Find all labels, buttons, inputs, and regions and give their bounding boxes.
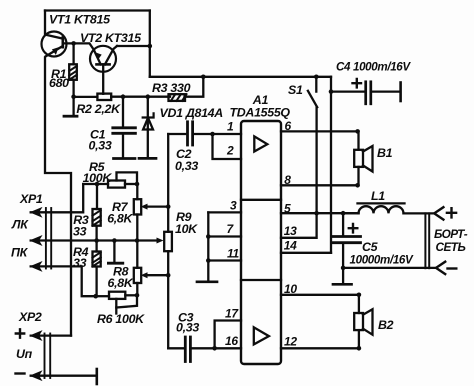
node junction R3 riser on rail2 <box>201 75 206 80</box>
svg-text:СЕТЬ: СЕТЬ <box>436 240 466 254</box>
svg-text:33: 33 <box>73 256 87 270</box>
variable resistor R9 <box>137 232 172 251</box>
svg-text:0,33: 0,33 <box>175 159 198 173</box>
resistor R2 <box>74 94 170 100</box>
terminal arrow minus board net <box>436 262 445 274</box>
wire rail2 horizontal <box>150 76 331 78</box>
wire VT1 collector vertical <box>44 11 46 35</box>
transistor VT2 <box>90 46 117 72</box>
node junction pin8/B1 <box>355 183 360 188</box>
node junction pin12/B2 <box>357 346 362 351</box>
capacitor C2 <box>168 122 212 145</box>
variable resistor R7 <box>134 184 141 241</box>
svg-text:0,33: 0,33 <box>89 138 112 152</box>
wire top rail from VT1 collector to drop <box>45 9 150 11</box>
wire ground bus pins 3-7-11 <box>207 212 209 280</box>
wire R3-33 top lead <box>96 184 98 209</box>
inductor L1 <box>343 203 434 213</box>
node junction R4/R6 left <box>93 294 98 299</box>
svg-text:VD1 Д814А: VD1 Д814А <box>160 106 224 120</box>
svg-text:S1: S1 <box>288 83 303 97</box>
capacitor C3 <box>168 337 214 362</box>
node junction R3/R4/PK <box>94 238 99 243</box>
wire pin 10 <box>281 294 359 296</box>
svg-text:3: 3 <box>230 198 237 212</box>
svg-text:12: 12 <box>284 335 297 349</box>
wire pin 2 <box>213 134 242 159</box>
node junction C1 top <box>121 94 126 99</box>
svg-text:13: 13 <box>284 224 297 238</box>
capacitor C4 <box>331 82 400 104</box>
capacitor C1 <box>113 97 136 157</box>
plus sign C4 <box>353 79 362 87</box>
terminal arrow XP1 pin3 <box>31 262 42 271</box>
svg-text:XP1: XP1 <box>19 192 43 206</box>
svg-text:VT1 KT815: VT1 KT815 <box>49 13 111 27</box>
node junction R7 wiper tap <box>166 204 171 209</box>
svg-text:0,33: 0,33 <box>176 320 199 334</box>
ground on PK row <box>108 241 122 264</box>
svg-text:ПК: ПК <box>11 246 29 260</box>
node junction VD1 top <box>146 94 151 99</box>
resistor R5 <box>108 172 137 187</box>
wire pin 3 <box>208 211 241 213</box>
resistor R4 33 (hatched) <box>93 241 101 297</box>
wire VT2 base stem down to R2 <box>102 64 104 93</box>
speaker B2 <box>354 295 372 349</box>
ground under C5 <box>333 268 352 284</box>
terminal arrow XP1 pin1 <box>31 208 42 217</box>
svg-text:B2: B2 <box>378 318 394 332</box>
connector bars board net <box>425 213 429 268</box>
node junction R5 left / R3 top <box>95 182 100 187</box>
node junction R7/R8/PK <box>135 238 140 243</box>
svg-text:10: 10 <box>284 282 297 296</box>
plus sign C5 <box>349 224 358 232</box>
svg-text:VT2 KT315: VT2 KT315 <box>80 31 142 45</box>
svg-text:ЛК: ЛК <box>11 218 29 232</box>
terminal arrow XP2 plus <box>31 331 42 340</box>
node junction R6 right / R8 bottom <box>135 293 140 298</box>
svg-text:TDA1555Q: TDA1555Q <box>230 106 291 120</box>
svg-text:100K: 100K <box>83 171 113 185</box>
wire pin 5 <box>281 212 359 214</box>
svg-text:6,8K: 6,8K <box>108 276 134 290</box>
wire left bus from R9 down to C3 <box>167 251 169 348</box>
svg-text:11: 11 <box>227 247 239 261</box>
wire XP2 plus row to long wire <box>31 334 71 336</box>
wire R7 wiper arrow <box>141 204 169 210</box>
svg-text:8: 8 <box>284 173 291 187</box>
resistor R3 330 (hatched) <box>169 77 204 101</box>
svg-text:10000m/16V: 10000m/16V <box>350 254 415 267</box>
integrated circuit U1 A1 TDA1555Q <box>241 121 281 364</box>
svg-text:680: 680 <box>49 76 69 90</box>
node junction VT2-drop <box>148 44 153 49</box>
wire pin 16 <box>215 347 241 349</box>
wire pin 8 <box>281 184 358 186</box>
svg-text:33: 33 <box>73 224 87 238</box>
node junction C5 top <box>341 211 346 216</box>
plus sign XP2 <box>16 329 24 337</box>
wire R8 wiper arrow <box>141 272 169 278</box>
svg-text:R6 100K: R6 100K <box>97 312 145 326</box>
wire VT1 collector output to node A <box>63 43 94 49</box>
wire pin 13 <box>281 213 317 238</box>
svg-text:БОРТ-: БОРТ- <box>434 227 468 241</box>
connector bars XP1 <box>46 208 51 269</box>
wire pin 1 <box>213 133 242 135</box>
wire third row to R6 <box>31 266 96 296</box>
svg-text:C5: C5 <box>362 240 379 254</box>
wire VT1 emitter down long left wire <box>45 58 71 336</box>
wire LK row to R5 riser <box>31 184 83 212</box>
ground bar end of minus row <box>96 369 99 384</box>
node junction pin7 bus <box>206 234 211 239</box>
node junction C4 tap <box>329 89 334 94</box>
node junction C5 bottom <box>341 266 346 271</box>
ground under pins bus <box>197 280 217 283</box>
node junction pin10/B2 <box>357 293 362 298</box>
svg-text:R2 2,2K: R2 2,2K <box>76 102 121 116</box>
wire pin 12 <box>281 347 359 349</box>
speaker B1 <box>354 131 372 185</box>
node junction pin11 bus <box>206 258 211 263</box>
ground under R2 junction <box>64 97 77 117</box>
svg-text:7: 7 <box>227 222 235 236</box>
node junction pin5/S1 <box>314 211 319 216</box>
svg-text:6,8K: 6,8K <box>107 212 133 226</box>
node junction R5 right / R7 top <box>135 182 140 187</box>
terminal arrow plus board net <box>434 207 443 219</box>
ground under VD1 <box>139 157 156 160</box>
node junction R1 bottom / R2 left <box>71 94 76 99</box>
svg-text:1: 1 <box>227 120 234 134</box>
node junction S1 top on rail2 <box>314 75 319 80</box>
plus sign board net <box>447 208 456 217</box>
svg-text:L1: L1 <box>371 189 385 203</box>
terminal bar after C4 <box>399 83 402 102</box>
svg-text:16: 16 <box>225 334 238 348</box>
wire pin 6 <box>281 130 358 132</box>
wire pin 14 <box>281 252 331 254</box>
wire pin 11 <box>208 259 241 261</box>
node junction C2 right / pins 1-2 <box>210 132 215 137</box>
svg-text:10K: 10K <box>175 222 198 236</box>
svg-text:5: 5 <box>284 201 291 215</box>
resistor R6 <box>96 292 137 314</box>
svg-text:R3 330: R3 330 <box>152 81 191 95</box>
zener diode VD1 <box>143 97 154 157</box>
terminal arrow XP1 pin2 <box>31 236 42 245</box>
wire VT2 collector to drop wire <box>117 45 150 47</box>
wire left bus x=168 from C2 down to R9 <box>167 134 169 232</box>
minus sign XP2 <box>16 372 25 374</box>
wire PK row <box>31 239 137 241</box>
switch S1 <box>308 77 317 213</box>
svg-text:XP2: XP2 <box>18 310 42 324</box>
resistor R3 33 (hatched) <box>93 209 101 241</box>
wire pin 7 <box>208 235 241 237</box>
node junction PK ground tap <box>112 238 117 243</box>
wire C4 branch vertical (rail2 corner to pin14) <box>330 77 332 253</box>
node junction R8 wiper tap <box>166 273 171 278</box>
svg-text:Uп: Uп <box>16 347 33 361</box>
wire XP2 minus row <box>31 375 96 377</box>
minus sign board net <box>448 267 457 269</box>
node junction pin6/B1 <box>355 129 360 134</box>
wire minus row to board net <box>343 267 436 269</box>
wire R5 row <box>83 183 108 185</box>
ground under C1 <box>114 157 136 160</box>
terminal arrow XP2 minus <box>31 371 42 380</box>
connector bars XP2 <box>45 334 51 379</box>
node junction R1 top <box>71 41 76 46</box>
svg-text:14: 14 <box>284 239 297 253</box>
svg-text:2: 2 <box>226 144 234 158</box>
wire pin 17 <box>215 321 241 349</box>
transistor VT1 <box>42 32 67 57</box>
svg-text:17: 17 <box>225 307 239 321</box>
node junction C3 right / pins 16-17 <box>212 346 217 351</box>
variable resistor R8 <box>134 241 141 296</box>
svg-text:B1: B1 <box>377 146 393 160</box>
wire drop from top rail to rail2 <box>149 11 151 77</box>
svg-text:C4 1000m/16V: C4 1000m/16V <box>336 61 411 74</box>
svg-text:6: 6 <box>285 119 292 133</box>
capacitor C5 <box>333 213 361 268</box>
resistor R1 (hatched) <box>69 43 77 96</box>
